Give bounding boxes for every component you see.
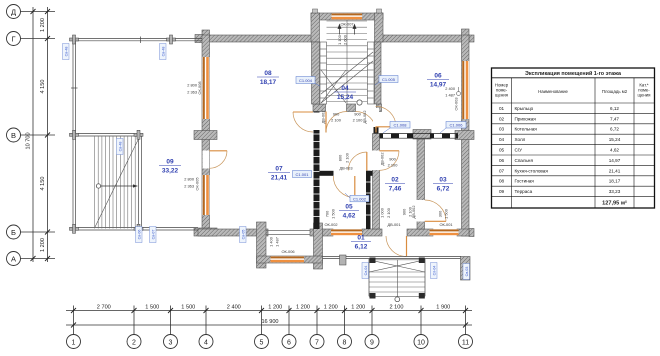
door hall->room 02 col 9 <box>372 151 399 171</box>
svg-text:05: 05 <box>499 148 505 153</box>
wall row Б segment east of entrance door <box>407 229 433 236</box>
svg-text:Экспликация помещений 1-го эта: Экспликация помещений 1-го этажа <box>525 70 622 77</box>
partition east of room 05 <box>366 171 371 229</box>
room label 07 Кухня-столовая <box>268 166 290 182</box>
svg-text:16 900: 16 900 <box>261 319 278 325</box>
svg-text:06: 06 <box>499 158 505 163</box>
wall top row Г west segment <box>202 35 317 42</box>
window ОК-007 stair bay <box>332 13 363 15</box>
svg-text:10: 10 <box>417 339 425 346</box>
row line А <box>21 258 56 260</box>
labels door ДВ-001 entrance <box>380 207 401 227</box>
svg-text:700: 700 <box>325 210 330 217</box>
table column lines <box>511 78 513 208</box>
interior wall col 9 lower <box>373 134 380 230</box>
svg-text:02: 02 <box>499 116 505 121</box>
svg-text:С1.001: С1.001 <box>296 172 310 177</box>
door into bath 05 <box>333 176 355 198</box>
room label 01 Крыльцо <box>351 235 371 251</box>
svg-text:1 400: 1 400 <box>269 236 274 247</box>
svg-text:2 363: 2 363 <box>187 90 197 95</box>
svg-text:5: 5 <box>260 339 264 346</box>
porch side edges <box>368 259 370 297</box>
door ДВ-003 kitchen side <box>293 112 313 132</box>
svg-text:1 200: 1 200 <box>268 304 282 310</box>
label Св-05 near col5 <box>240 227 247 243</box>
row line Д <box>21 11 56 13</box>
column bubble 3 <box>164 335 178 349</box>
svg-text:ДВ-002: ДВ-002 <box>321 110 326 123</box>
svg-text:ОК-003: ОК-003 <box>454 97 459 110</box>
partition col 7 (kitchen/bath wall) <box>313 112 320 230</box>
svg-text:ДВ-002: ДВ-002 <box>380 152 385 165</box>
terrace post bottom stair <box>134 227 143 230</box>
label Св-07 stair bottom <box>150 227 157 243</box>
box С1.004 <box>296 77 320 87</box>
kitchen-bay east pier <box>314 223 323 269</box>
door terrace->house west wall <box>203 151 228 169</box>
svg-text:6,12: 6,12 <box>610 106 619 111</box>
window white underlays <box>202 57 209 119</box>
svg-text:2 700: 2 700 <box>97 304 111 310</box>
labels door ДВ-002 left <box>321 110 342 123</box>
svg-text:14,97: 14,97 <box>609 158 621 163</box>
svg-text:2 100: 2 100 <box>388 163 399 168</box>
svg-text:900: 900 <box>354 112 361 117</box>
door ДВ-002 left under stairs <box>326 112 347 133</box>
labels window ОК-006 <box>269 236 295 254</box>
extension lines to bubbles <box>73 306 75 335</box>
dim line total horizontal <box>66 324 472 326</box>
svg-text:18,17: 18,17 <box>260 79 277 86</box>
box С1.005 <box>375 76 398 86</box>
svg-text:С1.008: С1.008 <box>394 123 408 128</box>
partition col 9 below door to room 06 <box>374 127 379 134</box>
terrace west edge <box>72 39 74 229</box>
porch cross braces <box>369 260 425 272</box>
svg-text:11: 11 <box>462 339 469 346</box>
stair east railing <box>367 42 374 104</box>
column bubble 2 <box>127 335 141 349</box>
terrace post row В stair <box>134 133 143 136</box>
svg-text:Прихожая: Прихожая <box>515 116 537 121</box>
labels window ОК-001 <box>438 208 453 227</box>
bay west wall <box>257 222 267 268</box>
room label 06 Спальня <box>427 73 449 89</box>
window ОК-008 west wall <box>203 57 205 119</box>
stairwell west wall <box>312 42 320 104</box>
stair up arrows <box>338 25 356 35</box>
svg-text:Св-06: Св-06 <box>138 230 142 240</box>
stair base circle <box>357 100 362 105</box>
svg-text:08: 08 <box>499 179 505 184</box>
east wall col 11 <box>462 35 470 236</box>
terrace stair treads <box>95 137 136 229</box>
corner stub col4 row Г up <box>202 30 210 36</box>
svg-text:07: 07 <box>275 166 283 173</box>
label Св-48 top mid <box>160 44 167 60</box>
svg-text:01: 01 <box>357 235 365 242</box>
svg-text:21,41: 21,41 <box>271 175 288 182</box>
window ОК-005 west wall <box>203 175 205 215</box>
bay lower wall row А <box>257 256 323 263</box>
tick slashes bottom chains <box>71 308 468 328</box>
svg-text:ДВ-002: ДВ-002 <box>411 205 416 218</box>
terrace post row В west <box>70 133 79 136</box>
room label 09 Терраса <box>159 159 181 175</box>
svg-text:С1.004: С1.004 <box>299 78 313 83</box>
svg-text:900: 900 <box>402 208 407 215</box>
porch centre line <box>396 260 398 297</box>
door ДВ-002 right under stairs <box>356 112 377 133</box>
wall row Б segment col4-bay <box>198 229 268 236</box>
svg-text:6,12: 6,12 <box>355 244 368 251</box>
svg-text:1 500: 1 500 <box>331 208 336 219</box>
interior wall col 10 <box>417 139 425 229</box>
svg-text:С1.005: С1.005 <box>382 77 396 82</box>
svg-text:21,41: 21,41 <box>609 168 621 173</box>
room label 05 С/У <box>339 204 359 220</box>
svg-text:04: 04 <box>499 137 505 142</box>
room label 03 Котельная <box>433 177 453 193</box>
svg-text:4 150: 4 150 <box>40 80 46 94</box>
partition top of room 05 <box>320 171 334 176</box>
corner stub col4 row Г left arm <box>195 35 203 43</box>
window ОК-006 bay wall <box>271 256 305 258</box>
svg-text:4: 4 <box>204 339 208 346</box>
column bubble 7 <box>310 335 324 349</box>
wall row Б corner segment <box>457 229 469 236</box>
svg-text:Наименование: Наименование <box>538 89 568 94</box>
label Сп-04 porch west <box>362 263 369 279</box>
svg-text:1 200: 1 200 <box>40 238 46 252</box>
svg-text:06: 06 <box>434 73 442 80</box>
terrace south edge <box>73 227 198 229</box>
door ДВ-003 opening in partition col 7 <box>313 113 320 131</box>
label Св-06 stair bottom <box>136 227 143 243</box>
row line Г <box>21 38 56 40</box>
terrace stair east edge <box>138 136 140 229</box>
svg-text:2 100: 2 100 <box>345 152 350 163</box>
svg-text:1 200: 1 200 <box>40 18 46 32</box>
svg-text:1 500: 1 500 <box>444 208 449 219</box>
wall row Б segment between windows <box>362 229 382 236</box>
svg-text:Кухня-столовая: Кухня-столовая <box>515 168 549 173</box>
dim line total vertical <box>32 7 34 262</box>
room label 02 Прихожая <box>385 177 405 193</box>
column bubble 5 <box>255 335 269 349</box>
porch axis circle <box>395 297 400 302</box>
svg-text:ДВ-003: ДВ-003 <box>339 166 352 171</box>
svg-text:Котельная: Котельная <box>515 127 538 132</box>
svg-text:09: 09 <box>166 159 174 166</box>
svg-text:1 200: 1 200 <box>351 304 365 310</box>
svg-text:08: 08 <box>264 70 272 77</box>
svg-text:9: 9 <box>370 339 374 346</box>
interior wall under stairs y104 center pier <box>347 104 356 112</box>
svg-text:1 100: 1 100 <box>337 34 342 45</box>
column bubble 10 <box>414 335 428 349</box>
west wall cross arm at row Б <box>194 228 217 236</box>
table header texts <box>495 83 651 98</box>
partition row В east wing <box>380 133 459 138</box>
svg-text:Д: Д <box>11 7 16 16</box>
grid bubble В <box>7 128 21 142</box>
svg-text:3: 3 <box>169 339 173 346</box>
svg-text:С/У: С/У <box>515 148 523 153</box>
svg-text:С1.002: С1.002 <box>353 196 367 201</box>
west wall col 4 <box>202 35 210 236</box>
svg-text:1 200: 1 200 <box>296 304 310 310</box>
svg-text:Терраса: Терраса <box>515 189 533 194</box>
svg-text:2 600: 2 600 <box>343 34 348 45</box>
terrace north edge <box>74 37 202 39</box>
svg-text:7,47: 7,47 <box>610 116 619 121</box>
west wall cross arm at row В <box>194 131 217 140</box>
column bubble 9 <box>365 335 379 349</box>
stair treads <box>327 20 368 22</box>
svg-text:6: 6 <box>287 339 291 346</box>
svg-text:1 000: 1 000 <box>380 207 385 218</box>
entrance door ДВ-001 <box>386 236 407 257</box>
stair bay east wall <box>375 13 384 42</box>
svg-text:1 487: 1 487 <box>275 237 280 247</box>
svg-text:2 100: 2 100 <box>386 207 391 218</box>
svg-text:04: 04 <box>341 85 349 92</box>
svg-text:900: 900 <box>333 112 340 117</box>
svg-text:Крыльцо: Крыльцо <box>515 106 534 111</box>
corner stub col11 row Б right arm <box>469 229 474 237</box>
svg-text:33,23: 33,23 <box>609 189 621 194</box>
door 07->05 upper leaf <box>348 152 367 171</box>
svg-text:8: 8 <box>343 339 347 346</box>
grid bubble А <box>7 252 21 266</box>
door room02->room03 col 10 <box>417 200 447 222</box>
tick slashes left chains <box>31 9 51 261</box>
svg-text:Св-48: Св-48 <box>119 142 123 152</box>
svg-text:Св-48: Св-48 <box>162 47 166 57</box>
svg-text:127,95 м²: 127,95 м² <box>602 200 627 207</box>
svg-text:Св-07: Св-07 <box>152 230 156 240</box>
labels window ОК-008 <box>187 81 202 94</box>
porch corner posts <box>370 258 425 299</box>
stair west railing <box>320 42 327 104</box>
svg-text:2 100: 2 100 <box>390 304 404 310</box>
svg-text:ОК-007: ОК-007 <box>340 22 353 27</box>
porch steps <box>369 260 425 297</box>
svg-text:ДВ-002: ДВ-002 <box>362 110 367 123</box>
box С1.008 <box>383 122 410 134</box>
svg-text:ДВ-001: ДВ-001 <box>387 222 400 227</box>
row line В <box>21 134 56 136</box>
column bubble 8 <box>338 335 352 349</box>
door into bedroom 06 <box>373 106 396 127</box>
label Св-48 row В <box>117 139 124 155</box>
labels door ДВ-002 right <box>353 110 367 123</box>
interior wall col 9 upper (stairwell east) <box>375 42 382 104</box>
window ОК-002 row Б <box>331 229 362 231</box>
svg-text:1 487: 1 487 <box>445 93 455 98</box>
window ОК-003 east wall <box>462 61 464 119</box>
svg-text:09: 09 <box>499 189 505 194</box>
svg-text:1 500: 1 500 <box>181 304 195 310</box>
svg-text:02: 02 <box>391 177 399 184</box>
svg-text:800: 800 <box>338 154 343 161</box>
grid bubble Г <box>7 32 21 46</box>
svg-text:Св-05: Св-05 <box>242 230 246 240</box>
svg-text:1 200: 1 200 <box>324 304 338 310</box>
svg-text:7: 7 <box>315 339 319 346</box>
svg-text:10 700: 10 700 <box>26 132 32 149</box>
column bubble 6 <box>282 335 296 349</box>
dim line segments horizontal <box>66 310 472 312</box>
svg-text:4 150: 4 150 <box>40 177 46 191</box>
labels window ОК-002 <box>324 208 337 227</box>
svg-text:Сп-04: Сп-04 <box>364 266 368 276</box>
svg-text:щения: щения <box>495 93 509 98</box>
svg-text:щения: щения <box>638 93 652 98</box>
table outer border <box>492 68 655 208</box>
svg-text:15,24: 15,24 <box>337 94 354 101</box>
svg-text:Холл: Холл <box>515 137 526 142</box>
column bubble 1 <box>67 335 81 349</box>
svg-text:4,62: 4,62 <box>610 148 619 153</box>
stair bay top wall <box>311 13 383 20</box>
svg-text:4,62: 4,62 <box>343 213 356 220</box>
stair bay west wall <box>311 13 320 42</box>
terrace post bottom-left <box>70 227 79 230</box>
svg-text:ОК-006: ОК-006 <box>281 249 294 254</box>
svg-text:1 500: 1 500 <box>145 304 159 310</box>
room label 08 Гостиная <box>257 70 279 86</box>
svg-text:2 100: 2 100 <box>331 118 342 123</box>
svg-text:Спальня: Спальня <box>515 158 534 163</box>
terrace stair cut diagonal <box>95 140 138 227</box>
svg-text:Б: Б <box>11 228 16 237</box>
svg-text:05: 05 <box>345 204 353 211</box>
svg-text:15,24: 15,24 <box>609 137 621 142</box>
svg-text:7,46: 7,46 <box>389 186 402 193</box>
svg-text:01: 01 <box>499 106 505 111</box>
svg-text:6,72: 6,72 <box>610 127 619 132</box>
box С1.006 <box>440 122 466 134</box>
row line Б <box>21 231 56 233</box>
room label 04 Холл <box>334 85 356 101</box>
window ОК-001 row Б <box>430 229 459 231</box>
terrace post top-mid <box>167 38 176 41</box>
svg-text:1: 1 <box>72 339 76 346</box>
terrace edge joint marks <box>140 37 142 44</box>
bay top stubs <box>313 9 318 13</box>
svg-text:6,72: 6,72 <box>437 186 450 193</box>
svg-text:ОК-005: ОК-005 <box>195 177 200 190</box>
svg-text:14,97: 14,97 <box>430 82 447 89</box>
interior wall cross col10 row В <box>413 130 431 140</box>
terrace post top-left <box>70 35 176 233</box>
interior wall under stairs y104 east pier <box>377 104 382 112</box>
svg-text:Св-03: Св-03 <box>465 267 469 277</box>
terrace row В edge <box>76 133 139 135</box>
svg-text:1 900: 1 900 <box>436 304 450 310</box>
svg-text:В: В <box>11 131 16 140</box>
svg-text:ОК-001: ОК-001 <box>439 222 452 227</box>
labels window ОК-003 <box>445 86 460 111</box>
svg-text:С1.006: С1.006 <box>450 123 464 128</box>
grid bubble Д <box>7 5 21 19</box>
svg-text:07: 07 <box>499 168 505 173</box>
column bubble 11 <box>459 335 473 349</box>
terrace stair direction arrow <box>99 185 137 187</box>
box С1.001 <box>293 171 312 178</box>
svg-text:А: А <box>11 254 16 263</box>
labels door hall-02 <box>380 152 399 167</box>
corner stub col11 row Г right arm <box>469 35 474 42</box>
svg-text:33,22: 33,22 <box>162 168 179 175</box>
stair break diagonals <box>321 52 373 103</box>
porch platform post <box>340 255 347 265</box>
kitchen bay opening lintel <box>266 230 310 232</box>
svg-text:2 363: 2 363 <box>184 184 194 189</box>
svg-text:2: 2 <box>132 339 136 346</box>
svg-text:Площадь м2: Площадь м2 <box>602 89 628 94</box>
labels door 05 <box>338 152 353 170</box>
svg-text:Г: Г <box>11 34 15 43</box>
svg-text:2 400: 2 400 <box>227 304 241 310</box>
labels window ОК-005 <box>184 177 199 191</box>
label Сп-04 porch east <box>431 263 438 279</box>
svg-text:2 400: 2 400 <box>445 86 456 91</box>
label Св-48 top west <box>63 44 70 60</box>
porch SE pier <box>461 257 471 281</box>
labels door 02-03 <box>402 205 416 218</box>
svg-text:18,17: 18,17 <box>609 179 621 184</box>
box С1.002 <box>345 193 369 202</box>
grid bubble Б <box>7 225 21 239</box>
wall top row Г east segment <box>377 35 469 42</box>
svg-text:300: 300 <box>438 210 443 217</box>
wall row Б post east of bay <box>310 229 333 236</box>
column bubble 4 <box>199 335 213 349</box>
stair centre line <box>346 20 348 104</box>
dim line segments vertical <box>47 7 49 262</box>
svg-text:2 800: 2 800 <box>184 177 195 182</box>
svg-text:ОК-002: ОК-002 <box>324 222 337 227</box>
svg-text:Гостиная: Гостиная <box>515 179 535 184</box>
east wall cross arm at row В <box>455 131 474 140</box>
svg-text:Св-48: Св-48 <box>65 47 69 57</box>
svg-text:Сп-04: Сп-04 <box>433 266 437 276</box>
label Св-03 porch pier <box>463 264 470 280</box>
svg-text:ОК-008: ОК-008 <box>197 81 202 94</box>
porch platform edge <box>323 255 462 257</box>
svg-text:03: 03 <box>439 177 447 184</box>
interior wall under stairs y104 west pier <box>313 104 326 112</box>
corner stub col11 row Г up <box>462 29 470 36</box>
svg-text:900: 900 <box>389 157 396 162</box>
svg-text:03: 03 <box>499 127 505 132</box>
